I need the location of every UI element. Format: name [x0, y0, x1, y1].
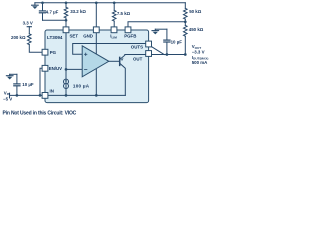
svg-text:500 mA: 500 mA: [192, 60, 208, 65]
svg-text:10 µF: 10 µF: [171, 39, 183, 44]
svg-text:4.7 µF: 4.7 µF: [46, 10, 59, 15]
wire C1 bottom to SET node: [43, 19, 67, 21]
pin ILIM: [111, 27, 117, 33]
svg-text:IN: IN: [50, 88, 54, 93]
node VOUT: [184, 53, 187, 56]
node GND rail: [95, 1, 98, 4]
wire internal IN rail: [48, 94, 126, 96]
capacitor C2 10uF input: [14, 74, 20, 95]
IC block LT3094: [45, 30, 149, 103]
svg-text:3.3 V: 3.3 V: [23, 20, 33, 25]
node R2 top: [113, 1, 116, 4]
wire amp to rail: [95, 69, 97, 95]
pin IN: [42, 93, 48, 99]
resistor R4 450k: [184, 22, 188, 55]
pin PG: [42, 49, 48, 55]
svg-text:−3.3 V: −3.3 V: [192, 50, 205, 55]
wire OUTS diagonal: [151, 47, 164, 55]
wire GND pin stub (inside): [95, 32, 97, 54]
node output cap tap: [166, 53, 169, 56]
ground (output): [152, 29, 159, 34]
wire current source to rail: [65, 89, 67, 96]
op-amp U1 error amplifier: [82, 46, 109, 77]
pin PGFB: [125, 27, 131, 33]
svg-text:PG: PG: [50, 50, 57, 55]
pin OUT: [146, 51, 152, 57]
wire GND pin to rail: [95, 3, 97, 27]
wire EN/UV to Vin rail: [40, 68, 42, 95]
node C2 bottom: [16, 94, 19, 97]
resistor R3 50k: [184, 3, 188, 22]
svg-text:33.2 kΩ: 33.2 kΩ: [70, 9, 86, 14]
svg-text:450 kΩ: 450 kΩ: [189, 27, 204, 32]
node EN/UV rail junction: [39, 94, 42, 97]
wire C3 top to ground: [155, 28, 167, 30]
svg-text:PGFB: PGFB: [124, 34, 136, 39]
svg-text:OUT: OUT: [133, 56, 143, 61]
svg-text:−5 V: −5 V: [3, 96, 12, 101]
svg-text:LT3094: LT3094: [47, 35, 63, 40]
node SET junction: [65, 19, 68, 22]
wire C2 top to ground: [10, 73, 17, 75]
wire OUT rail: [152, 54, 185, 56]
svg-text:10 µF: 10 µF: [22, 82, 34, 87]
svg-text:200 kΩ: 200 kΩ: [11, 35, 26, 40]
pin SET: [63, 27, 69, 33]
svg-text:Pin Not Used in this Circuit:: Pin Not Used in this Circuit: VIOC: [3, 111, 77, 117]
capacitor C1 4.7uF: [39, 3, 45, 21]
svg-text:ILIM: ILIM: [110, 34, 117, 40]
resistor R2 7.5k: [112, 3, 116, 27]
wire PGFB to divider tap: [128, 22, 185, 27]
ground (top-left): [32, 3, 39, 9]
node SET to minus input: [65, 68, 68, 71]
wire top ground rail: [35, 2, 185, 4]
svg-text:GND: GND: [83, 34, 93, 39]
svg-text:50 kΩ: 50 kΩ: [189, 9, 202, 14]
node amp supply rail: [95, 94, 98, 97]
wire minus input: [66, 68, 82, 70]
wire SET column: [65, 32, 67, 78]
pin EN/UV: [42, 65, 48, 71]
ground (input): [6, 74, 13, 79]
node divider tap: [184, 20, 187, 23]
node current source rail: [65, 94, 68, 97]
svg-text:SET: SET: [70, 34, 79, 39]
resistor R1 33.2k: [64, 3, 68, 27]
pin GND: [93, 27, 99, 33]
svg-text:OUTS: OUTS: [131, 45, 143, 50]
svg-text:EN/UV: EN/UV: [49, 66, 62, 71]
svg-text:7.5 kΩ: 7.5 kΩ: [117, 11, 131, 16]
resistor R5 200k: [28, 27, 43, 53]
current source I1 100uA: [64, 79, 69, 89]
terminal 3.3V tick: [27, 26, 31, 28]
wire Vin rail: [10, 94, 43, 96]
node C1 top: [41, 1, 44, 4]
wire amp output to base: [109, 60, 120, 62]
capacitor C3 10uF output: [164, 29, 170, 54]
svg-text:100 µA: 100 µA: [73, 83, 90, 88]
terminal Vin tick: [9, 93, 11, 97]
wire OUTS feedback (inside): [73, 44, 146, 55]
pin OUTS: [146, 41, 152, 47]
transistor Q1 pass device: [120, 55, 146, 96]
node R1 top: [65, 1, 68, 4]
